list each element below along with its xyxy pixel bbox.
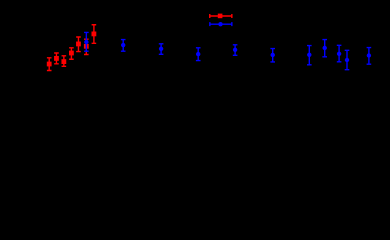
legend red entry	[210, 14, 232, 18]
errorbar chart	[0, 0, 390, 156]
red series: square markers	[47, 32, 97, 67]
legend blue entry	[210, 22, 232, 26]
red series: error bars	[47, 25, 96, 71]
blue series: error bars	[84, 32, 371, 69]
blue series: circle markers	[84, 40, 371, 62]
